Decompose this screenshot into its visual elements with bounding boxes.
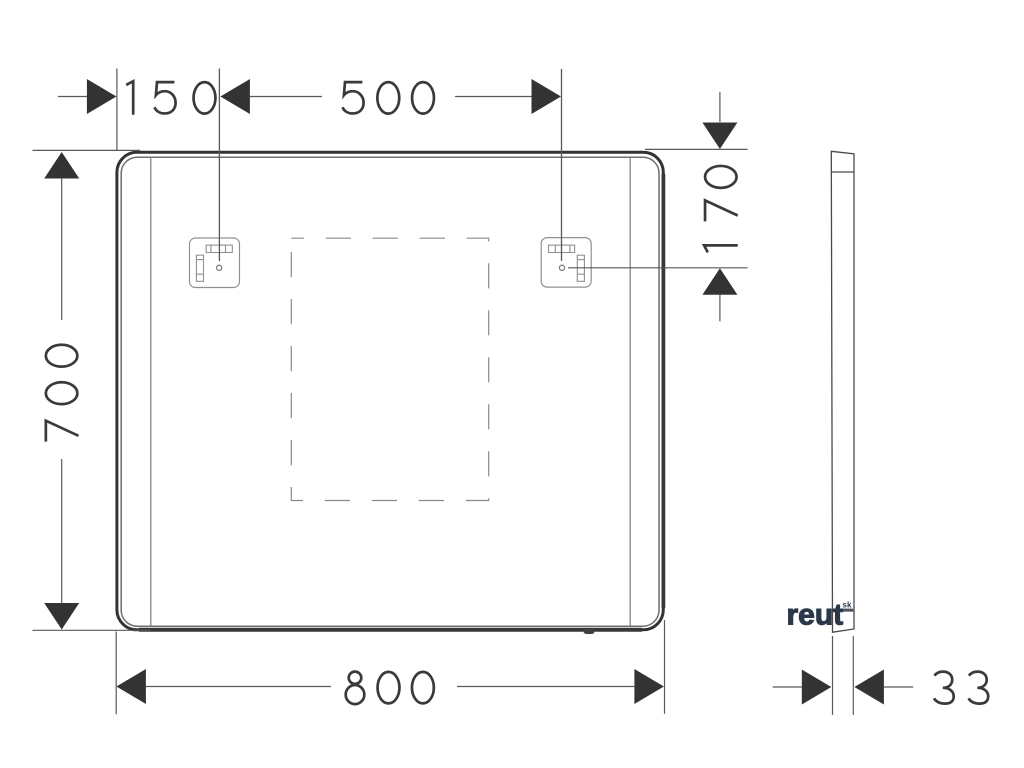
- mirror outer outline: [117, 152, 663, 630]
- dashed rectangle (demister pad): [291, 238, 488, 500]
- dim 700 top arrow: [44, 152, 79, 179]
- dim 800 text: [346, 672, 434, 705]
- bottom sensor bump: [584, 629, 595, 634]
- side view bottom joint line: [832, 610, 854, 612]
- mirror right light-strip line: [629, 158, 631, 626]
- dim 33 text: [934, 672, 988, 704]
- dim 33 left arrow: [802, 670, 832, 705]
- dim 150 right arrow / dim 500 left arrow: [220, 79, 250, 114]
- reut logo t-crossbar extension: [843, 609, 853, 612]
- mirror outer right edge (thicker): [662, 174, 666, 608]
- right bracket vertical slot dividers: [577, 259, 584, 261]
- dim 500 line right segment: [455, 96, 532, 98]
- right bracket vertical slot: [577, 255, 584, 281]
- dim 170 lower leader: [719, 294, 721, 321]
- mirror left light-strip line: [150, 158, 152, 626]
- dim 170 upper leader: [719, 92, 721, 122]
- dim 170 extension line top: [645, 148, 748, 150]
- dim 800 extension line right: [664, 620, 666, 714]
- dim 150 text: [126, 81, 215, 115]
- left bracket vertical slot: [196, 255, 203, 281]
- dim 800 line left segment: [146, 686, 331, 688]
- mirror outer bottom edge (thicker): [139, 628, 642, 632]
- right bracket horizontal slot: [549, 245, 575, 252]
- left bracket vertical slot dividers: [196, 259, 203, 261]
- right bracket screw hole: [559, 265, 564, 270]
- side view profile: [831, 151, 854, 632]
- dim 800 line right segment: [457, 686, 635, 688]
- dim 33 left leader: [773, 686, 802, 688]
- dim 170 text (rotated): [704, 166, 738, 252]
- left bracket outline: [190, 238, 240, 288]
- dim 500 text: [343, 82, 434, 114]
- dim 33 extension line left: [832, 636, 834, 715]
- dim 170 bottom arrow (pointing up): [702, 268, 737, 295]
- dim 170 top arrow (pointing down): [702, 123, 737, 150]
- dim 33 right arrow: [854, 670, 884, 705]
- right bracket horizontal slot dividers: [554, 245, 556, 252]
- left bracket horizontal slot dividers: [210, 245, 212, 252]
- side view top joint line: [831, 171, 854, 173]
- dim 700 line lower segment: [61, 459, 63, 604]
- dim 500 line left segment: [250, 96, 322, 98]
- dim 800 right arrow: [634, 669, 664, 704]
- dim 500 extension line right (to right bracket): [561, 69, 563, 261]
- dim 700 text (rotated): [46, 345, 79, 442]
- dim 150 left arrow: [87, 79, 117, 114]
- right bracket outline: [541, 238, 591, 288]
- dim 700 extension line top: [33, 149, 141, 151]
- svg-text:sk: sk: [843, 601, 852, 610]
- left bracket horizontal slot: [206, 245, 232, 252]
- dim 150 leader line: [58, 96, 88, 98]
- mirror inner edge contour: [121, 157, 659, 626]
- dim 33 right leader: [884, 686, 913, 688]
- dim 150/500 extension line mid (to left bracket): [218, 69, 220, 262]
- dim 800 left arrow: [116, 669, 145, 704]
- svg-text:reut: reut: [787, 599, 844, 632]
- dim 700 extension line bottom: [33, 629, 151, 631]
- dim 700 line upper segment: [61, 178, 63, 320]
- dim 700 bottom arrow: [44, 603, 79, 630]
- dim 500 right arrow: [532, 79, 562, 114]
- dim 33 extension line right: [852, 636, 854, 715]
- left bracket screw hole: [217, 265, 222, 270]
- dim 150/500 extension line left: [116, 69, 118, 151]
- dim 170 extension line bottom (from right bracket hole): [568, 267, 748, 269]
- dim 800 extension line left: [115, 632, 117, 715]
